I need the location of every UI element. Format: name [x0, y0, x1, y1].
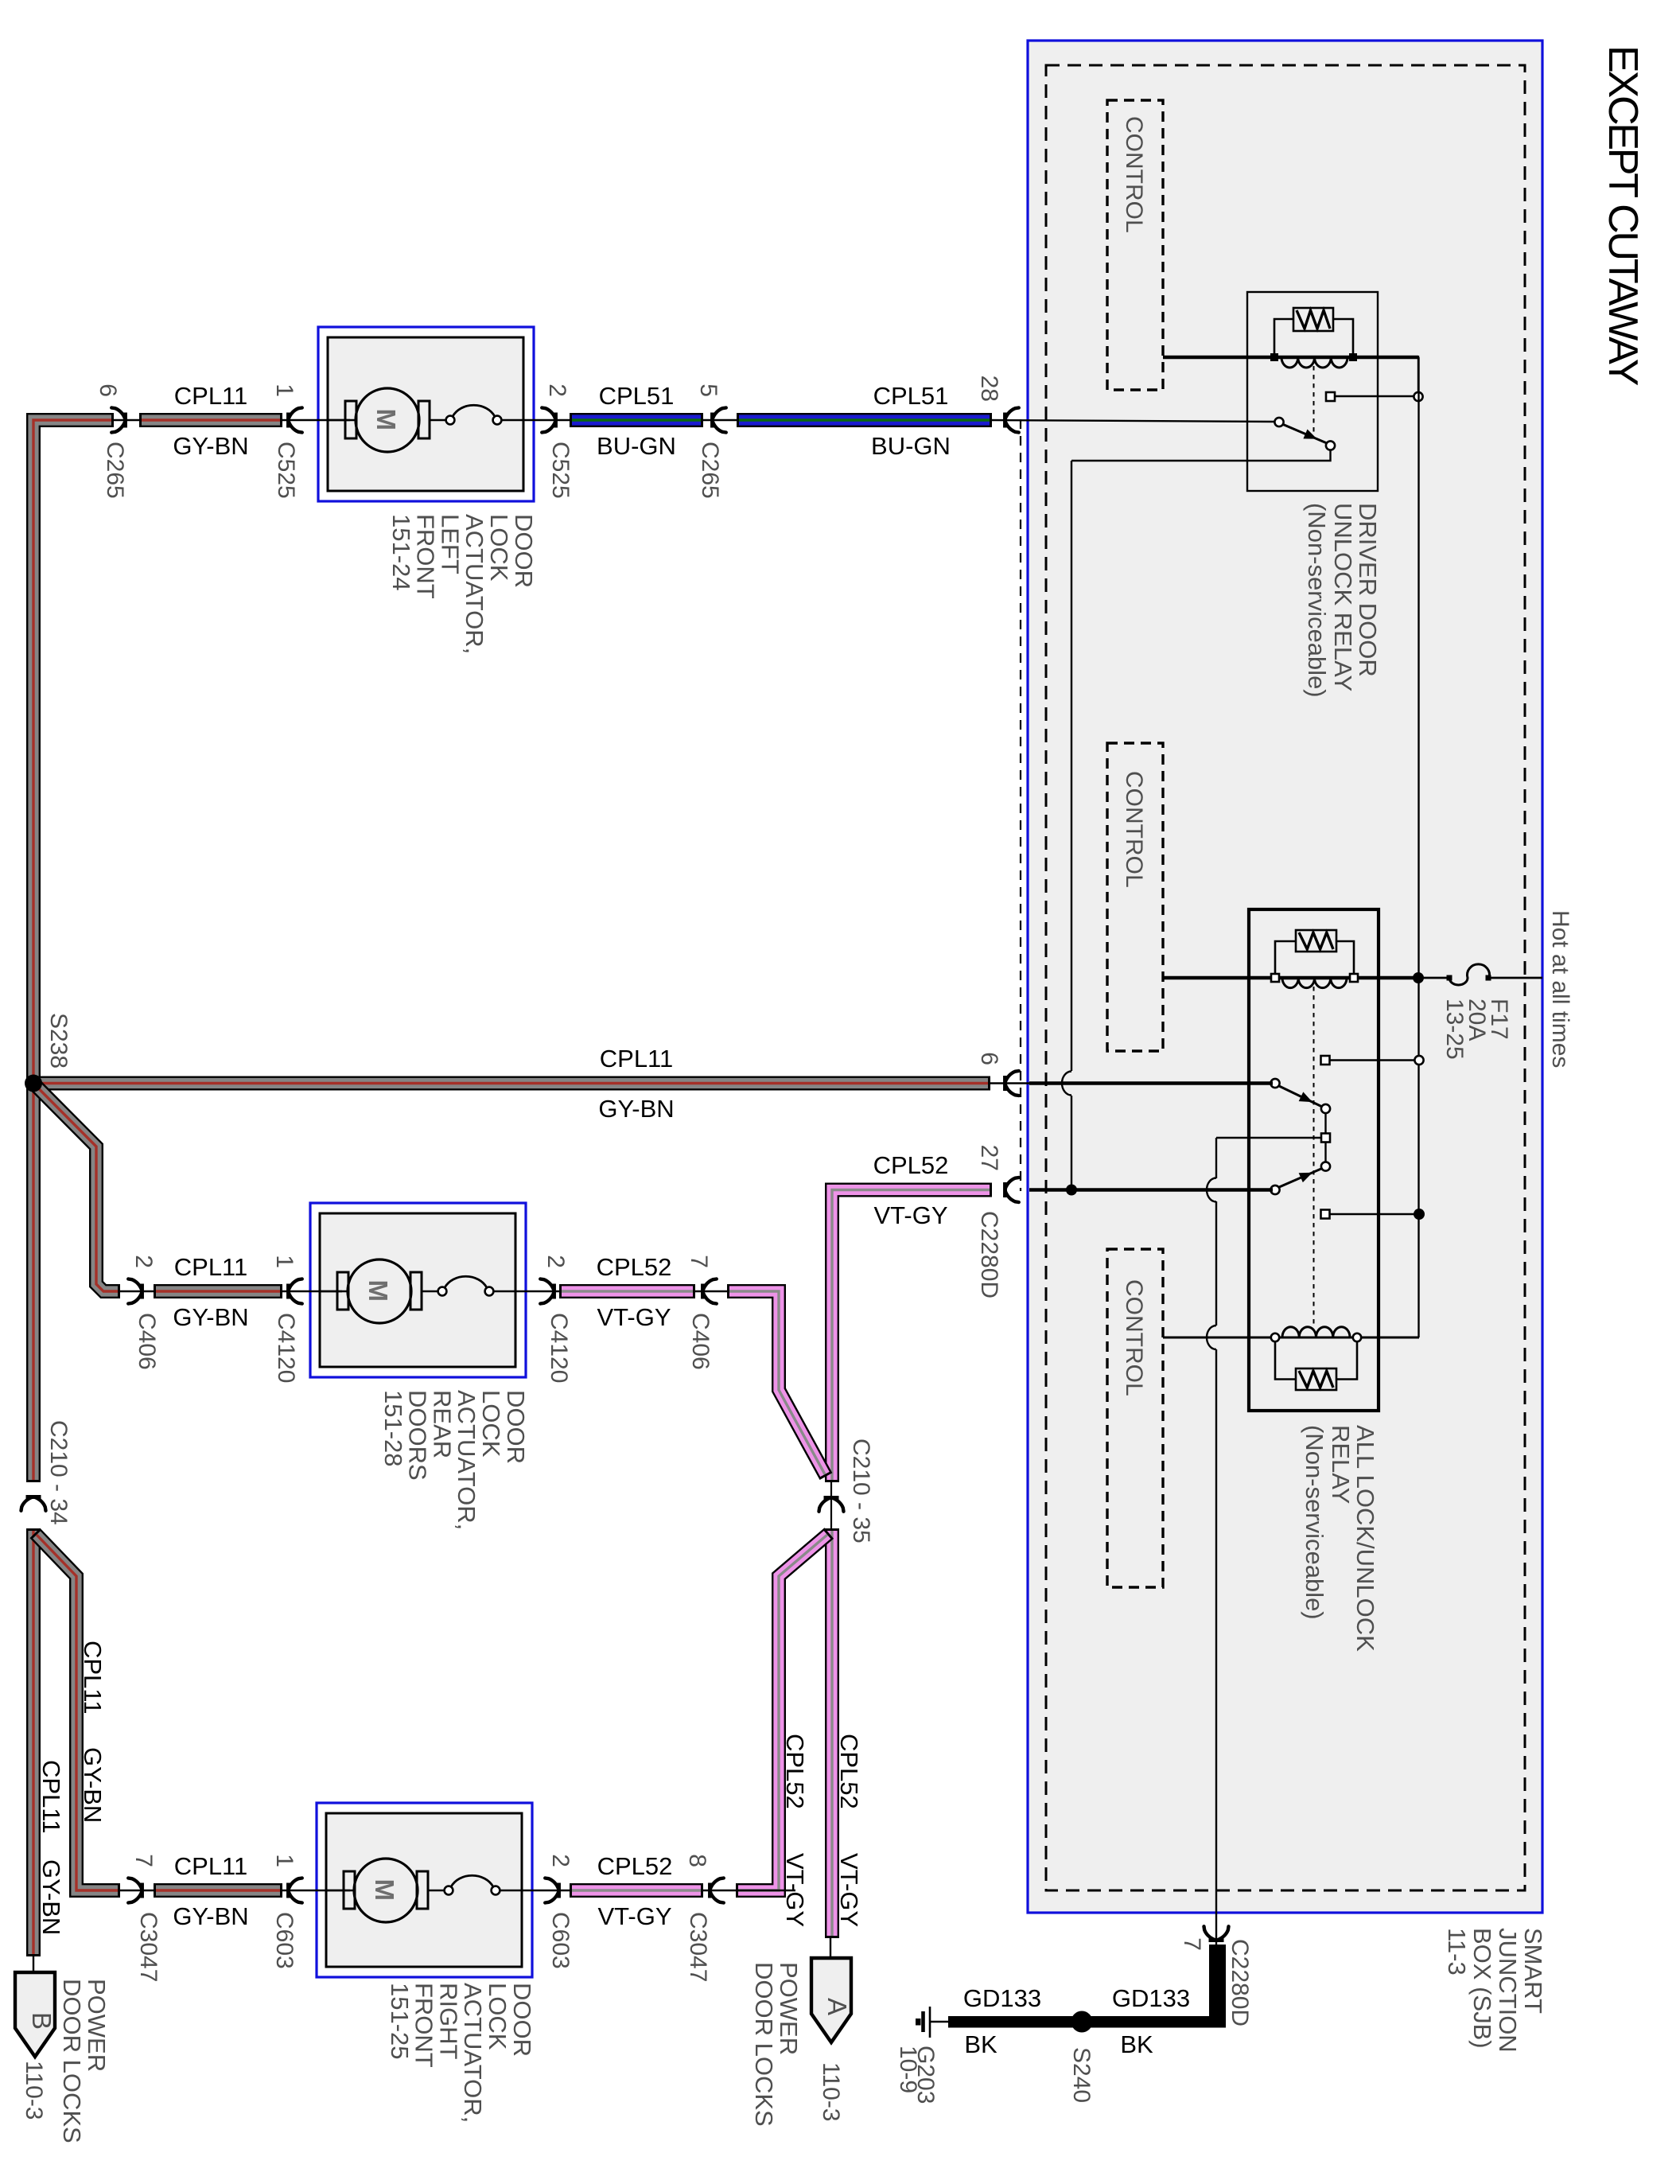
svg-text:CPL52: CPL52: [873, 1151, 949, 1179]
svg-text:C3047: C3047: [685, 1912, 711, 1982]
svg-text:5: 5: [695, 383, 721, 397]
row2 connector arrow 2 C4120 right: [526, 1291, 562, 1292]
svg-text:C3047: C3047: [135, 1912, 161, 1982]
wire GD133 thick bar down: [1209, 1945, 1226, 2027]
row2 connector arrow 1 C4120: [280, 1291, 342, 1292]
svg-text:C4120: C4120: [273, 1313, 299, 1383]
relay K1 DRIVER DOOR UNLOCK RELAY box: [1247, 292, 1378, 491]
svg-text:ACTUATOR,: ACTUATOR,: [453, 1390, 480, 1530]
SJB pin 27 arrow: [1005, 1178, 1018, 1202]
svg-text:VT-GY: VT-GY: [597, 1303, 671, 1331]
svg-text:CONTROL: CONTROL: [1121, 1279, 1147, 1396]
row1 connector arrow 6 C265: [111, 419, 142, 421]
SJB pin 6 internal bus: [1029, 1081, 1273, 1085]
junction dot on CPL52 bus: [1066, 1185, 1077, 1196]
relay K2 NO contact A square: [1321, 1056, 1330, 1065]
svg-text:VT-GY: VT-GY: [873, 1201, 947, 1229]
svg-text:151-24: 151-24: [387, 514, 415, 591]
svg-text:28: 28: [976, 376, 1002, 402]
svg-text:1: 1: [271, 383, 297, 397]
connector C210-35 arrow: [830, 1480, 832, 1531]
relay K2 ALL LOCK/UNLOCK RELAY box: [1249, 909, 1379, 1411]
svg-text:Hot at all times: Hot at all times: [1547, 910, 1573, 1068]
svg-text:GY-BN: GY-BN: [37, 1859, 65, 1935]
svg-text:CPL51: CPL51: [599, 382, 675, 410]
svg-text:C265: C265: [697, 442, 723, 499]
svg-text:C265: C265: [102, 442, 128, 499]
svg-text:LOCK: LOCK: [485, 514, 513, 582]
row1 connector arrow 2 C525 right: [534, 419, 572, 421]
row3 connector arrow 1 C603: [280, 1890, 350, 1891]
relay K2 upper coil contact left: [1271, 974, 1279, 982]
svg-text:CONTROL: CONTROL: [1121, 116, 1147, 233]
wire CPL52 VT-GY row3 segment: [570, 1883, 703, 1898]
row3 connector arrow 7 C3047: [118, 1890, 156, 1891]
svg-text:DOOR LOCKS: DOOR LOCKS: [750, 1962, 778, 2127]
row2 connector arrow 7 C406: [693, 1291, 729, 1292]
svg-text:6: 6: [95, 383, 121, 397]
svg-text:7: 7: [130, 1854, 157, 1867]
relay K2 switch B arm: [1278, 1169, 1322, 1188]
svg-text:2: 2: [130, 1255, 157, 1268]
svg-text:11-3: 11-3: [1443, 1928, 1471, 1976]
svg-text:151-28: 151-28: [379, 1390, 407, 1467]
svg-text:CPL52: CPL52: [597, 1253, 672, 1281]
relay K2 NO contact A circle: [1414, 1056, 1423, 1065]
relay K1 coil: [1281, 357, 1347, 368]
relay K1 NO square contact: [1326, 392, 1335, 401]
connector B pentagon: [33, 1954, 34, 1972]
relay K1 NO contact line: [1330, 395, 1418, 397]
svg-text:BK: BK: [964, 2030, 997, 2058]
svg-text:LOCK: LOCK: [477, 1390, 505, 1458]
relay K2 NO contact B junction dot: [1414, 1209, 1425, 1220]
svg-text:DOORS: DOORS: [404, 1390, 432, 1481]
svg-text:CPL11: CPL11: [37, 1760, 65, 1834]
wire GD133 horizontal to S240: [948, 2016, 1226, 2028]
CONTROL block 2 dashed box: [1107, 743, 1163, 1051]
svg-text:7: 7: [686, 1255, 712, 1268]
svg-text:FRONT: FRONT: [410, 1983, 438, 2068]
relay K2 NO contact A line: [1325, 1059, 1419, 1061]
svg-text:27: 27: [976, 1145, 1002, 1171]
CONTROL block 1 dashed box: [1107, 100, 1163, 390]
pin 7 exit line: [1215, 1913, 1217, 1946]
relay K1 common contact: [1274, 418, 1283, 426]
svg-text:REAR: REAR: [428, 1390, 456, 1458]
relay K2 lower coil feed from CONTROL 3: [1163, 1337, 1419, 1339]
svg-text:C406: C406: [134, 1313, 160, 1370]
svg-text:C210 - 35: C210 - 35: [848, 1438, 874, 1544]
svg-text:LOCK: LOCK: [484, 1983, 511, 2050]
fuse F17 symbol: [1449, 964, 1490, 985]
relay K2 upper resistor: [1275, 941, 1296, 974]
relay K1 NO contact circle on B+ line: [1414, 392, 1422, 401]
svg-text:M: M: [371, 409, 401, 431]
wire K1 output to CPL52 node with hop over CPL11: [1071, 461, 1072, 1071]
relay K2 middle contact line to ground feed: [1216, 1137, 1321, 1139]
svg-text:C603: C603: [271, 1912, 297, 1969]
svg-text:8: 8: [684, 1854, 710, 1867]
splice S238 dot: [25, 1075, 42, 1092]
relay K2 NO contact B line: [1325, 1213, 1419, 1215]
wire CPL11 diagonal from S238 to row2: [32, 1081, 120, 1291]
svg-text:BU-GN: BU-GN: [597, 432, 676, 460]
relay K2 lower coil contact right: [1353, 1333, 1361, 1341]
svg-text:GD133: GD133: [963, 1984, 1041, 2012]
relay K1 coil junction right: [1349, 353, 1357, 361]
svg-text:C603: C603: [547, 1912, 574, 1969]
svg-text:CPL11: CPL11: [174, 382, 248, 410]
svg-text:C210 - 34: C210 - 34: [45, 1420, 72, 1525]
wire CPL11 GY-BN branch to row3: [35, 1533, 120, 1890]
svg-text:ACTUATOR,: ACTUATOR,: [459, 1983, 487, 2123]
svg-text:C406: C406: [687, 1313, 714, 1370]
svg-text:CPL52: CPL52: [835, 1734, 863, 1809]
svg-text:LEFT: LEFT: [436, 514, 464, 574]
connector A pentagon: [830, 1936, 831, 1958]
svg-text:S238: S238: [45, 1013, 72, 1069]
relay K2 middle square contact: [1324, 1143, 1326, 1162]
svg-text:BK: BK: [1120, 2030, 1153, 2058]
ground G203 symbol: [929, 2007, 931, 2038]
relay K2 common B contact: [1270, 1185, 1279, 1194]
svg-text:CPL52: CPL52: [781, 1734, 809, 1809]
wire CPL52 row2 to connector C210-35: [727, 1291, 826, 1477]
svg-text:VT-GY: VT-GY: [835, 1853, 863, 1927]
relay K2 upper coil contact right: [1350, 974, 1358, 982]
row3 connector arrow 2 C603 right: [532, 1890, 572, 1891]
svg-text:EXCEPT CUTAWAY: EXCEPT CUTAWAY: [1600, 45, 1646, 386]
CONTROL block 3 dashed box: [1107, 1249, 1163, 1587]
svg-text:2: 2: [542, 1255, 569, 1268]
svg-text:C4120: C4120: [546, 1313, 572, 1383]
relay K2 NO contact B square: [1321, 1210, 1330, 1219]
wire CPL51 BU-GN segment 2: [737, 413, 992, 427]
svg-text:GY-BN: GY-BN: [173, 1902, 248, 1930]
relay K2 common A contact: [1270, 1079, 1279, 1088]
connector C2280D dashed pin line: [1020, 419, 1021, 1191]
svg-text:RIGHT: RIGHT: [434, 1983, 462, 2060]
wire CPL11 row3 segment: [154, 1883, 282, 1898]
svg-text:FRONT: FRONT: [412, 514, 440, 599]
splice S240: [1071, 2011, 1093, 2033]
SJB pin 28 arrow: [1005, 408, 1018, 433]
relay K2 switch A arm: [1278, 1086, 1322, 1108]
relay K2 lower coil contact left: [1271, 1333, 1279, 1341]
svg-text:S240: S240: [1068, 2047, 1095, 2103]
svg-text:GY-BN: GY-BN: [598, 1095, 674, 1123]
svg-text:110-3: 110-3: [818, 2062, 844, 2122]
svg-text:SMART: SMART: [1519, 1928, 1547, 2014]
svg-text:(Non-serviceable): (Non-serviceable): [1303, 503, 1331, 698]
wire CPL11 GY-BN main vertical with row1 corner: [33, 420, 114, 1482]
svg-text:13-25: 13-25: [1441, 999, 1468, 1060]
svg-text:POWER: POWER: [775, 1962, 803, 2055]
svg-text:CONTROL: CONTROL: [1121, 771, 1147, 888]
row1 connector arrow 1 C525: [280, 419, 350, 421]
svg-text:C2280D: C2280D: [1227, 1939, 1253, 2026]
wire CPL52 VT-GY to connector A: [825, 1528, 839, 1938]
relay K1 resistor: [1274, 319, 1293, 354]
svg-text:DRIVER DOOR: DRIVER DOOR: [1354, 503, 1382, 677]
svg-text:ALL LOCK/UNLOCK: ALL LOCK/UNLOCK: [1351, 1425, 1379, 1652]
svg-text:B: B: [27, 2012, 56, 2030]
relay K1 pivot contact: [1326, 441, 1335, 450]
relay K2 pivot A contact link: [1324, 1113, 1326, 1133]
wire B+ vertical bus: [1417, 357, 1419, 1337]
svg-text:GY-BN: GY-BN: [173, 432, 248, 460]
smart junction box SJB outline: [1028, 41, 1542, 1913]
svg-text:DOOR: DOOR: [510, 514, 538, 588]
relay K1 B+ feed corner down: [1417, 356, 1419, 396]
svg-text:BOX (SJB): BOX (SJB): [1468, 1928, 1496, 2049]
svg-text:DOOR LOCKS: DOOR LOCKS: [58, 1979, 86, 2143]
connector C210-34 arrow: [21, 1497, 46, 1510]
wire CPL52 VT-GY branch to row3: [736, 1533, 829, 1890]
svg-text:POWER: POWER: [83, 1979, 111, 2072]
wire CPL11 GY-BN to connector B: [26, 1528, 41, 1956]
relay K2 upper coil feed from CONTROL 2: [1163, 976, 1418, 980]
wire CPL11 row2 segment: [154, 1284, 282, 1298]
fuse F17 20A feed line: [1418, 977, 1449, 979]
relay K1 switch arm: [1282, 424, 1327, 443]
svg-text:ACTUATOR,: ACTUATOR,: [461, 514, 488, 654]
wire CPL11 row1 segment: [139, 413, 282, 427]
wire CPL52 VT-GY row2 segment: [559, 1284, 695, 1298]
svg-text:1: 1: [271, 1255, 297, 1268]
relay K1 coil feed line from CONTROL 1: [1163, 356, 1418, 360]
door lock actuator rear doors box M2: [310, 1203, 526, 1377]
svg-text:VT-GY: VT-GY: [597, 1902, 671, 1930]
svg-text:2: 2: [544, 383, 570, 397]
svg-text:CPL11: CPL11: [600, 1045, 674, 1073]
svg-text:UNLOCK RELAY: UNLOCK RELAY: [1329, 503, 1357, 691]
svg-text:C525: C525: [273, 442, 299, 499]
wire CPL52 VT-GY from pin 27: [832, 1190, 992, 1483]
svg-text:A: A: [822, 1998, 852, 2015]
svg-text:RELAY: RELAY: [1327, 1425, 1355, 1504]
relay K1 actuation dashed line: [1313, 366, 1315, 436]
svg-text:6: 6: [976, 1052, 1002, 1065]
svg-text:M: M: [370, 1879, 399, 1902]
svg-text:C2280D: C2280D: [976, 1211, 1002, 1298]
svg-text:GD133: GD133: [1112, 1984, 1190, 2012]
svg-text:C525: C525: [547, 442, 574, 499]
SJB pin 27 internal bus: [1029, 1188, 1273, 1192]
svg-text:CPL52: CPL52: [597, 1852, 673, 1880]
svg-text:110-3: 110-3: [21, 2061, 47, 2120]
relay K2 lower coil: [1282, 1327, 1350, 1337]
relay K1 output down-left wire: [1071, 450, 1331, 461]
pin 7 connector arrow: [1204, 1926, 1229, 1940]
relay K2 actuation dashed line: [1313, 987, 1315, 1324]
svg-text:CPL11: CPL11: [174, 1852, 248, 1880]
svg-text:CPL11: CPL11: [79, 1641, 107, 1715]
svg-text:2: 2: [547, 1854, 574, 1867]
svg-text:CPL51: CPL51: [873, 382, 949, 410]
svg-text:10-9: 10-9: [895, 2046, 921, 2093]
junction dot coil/B+ line: [1413, 972, 1424, 983]
relay K1 coil junction left: [1270, 353, 1278, 361]
svg-text:7: 7: [1179, 1937, 1205, 1951]
wire relay K2 middle to SJB pin 7 with hops: [1215, 1138, 1217, 1178]
wire CPL51 BU-GN segment 1: [570, 413, 703, 427]
svg-text:M: M: [364, 1280, 393, 1302]
row2 connector arrow 2 C406: [118, 1291, 156, 1292]
svg-text:JUNCTION: JUNCTION: [1494, 1928, 1522, 2053]
svg-text:1: 1: [271, 1854, 297, 1867]
svg-text:DOOR: DOOR: [502, 1390, 530, 1464]
wire CPL11 GY-BN long horizontal to pin 6: [31, 1076, 990, 1091]
svg-text:BU-GN: BU-GN: [871, 432, 951, 460]
svg-text:DOOR: DOOR: [508, 1983, 536, 2057]
svg-text:151-25: 151-25: [386, 1983, 414, 2060]
relay K2 lower resistor: [1275, 1341, 1296, 1380]
SJB pin 6 arrow: [988, 1082, 1029, 1084]
svg-text:GY-BN: GY-BN: [79, 1747, 107, 1823]
row3 connector arrow 8 C3047: [701, 1890, 795, 1891]
door lock actuator left front box M1: [318, 327, 534, 501]
relay K2 pivot B contact: [1321, 1162, 1330, 1170]
splice S238 dot overlay: [25, 1075, 42, 1092]
row1 connector arrow 5 C265: [701, 419, 739, 421]
door lock actuator right front box M3: [317, 1803, 532, 1977]
svg-text:(Non-serviceable): (Non-serviceable): [1301, 1425, 1328, 1620]
SJB inner dashed border: [1046, 65, 1525, 1890]
relay K1 pin 28 line to common: [990, 420, 1276, 422]
svg-text:CPL11: CPL11: [174, 1253, 248, 1281]
relay K2 upper coil: [1282, 978, 1347, 988]
svg-text:GY-BN: GY-BN: [173, 1303, 248, 1331]
